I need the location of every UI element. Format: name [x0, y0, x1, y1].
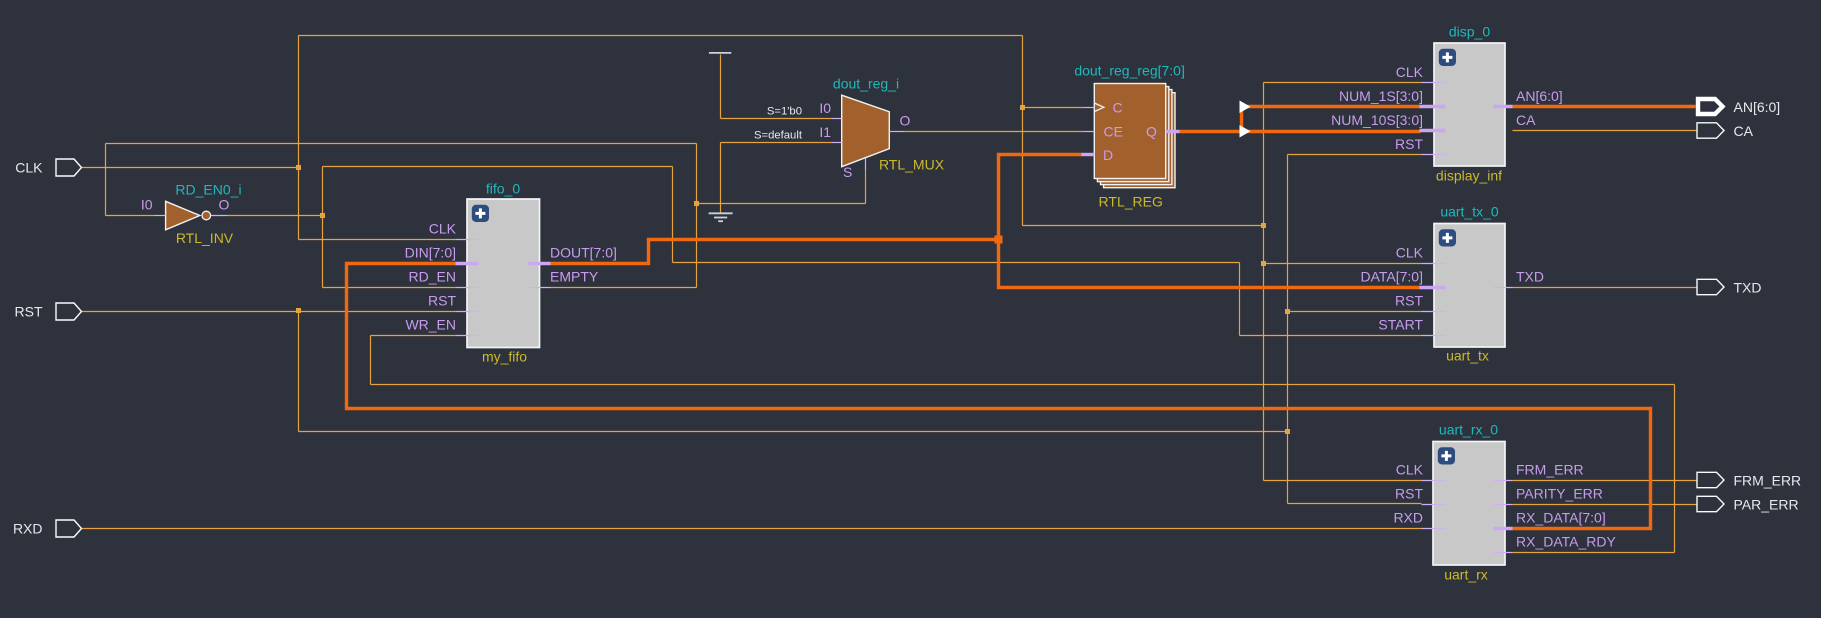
- svg-text:S=1'b0: S=1'b0: [767, 106, 802, 118]
- svg-text:TXD: TXD: [1734, 280, 1762, 296]
- svg-text:NUM_1S[3:0]: NUM_1S[3:0]: [1339, 88, 1423, 104]
- svg-text:RX_DATA[7:0]: RX_DATA[7:0]: [1516, 510, 1606, 526]
- svg-text:AN[6:0]: AN[6:0]: [1734, 99, 1781, 115]
- svg-text:RD_EN: RD_EN: [409, 269, 456, 285]
- svg-text:PAR_ERR: PAR_ERR: [1734, 497, 1799, 513]
- svg-text:RX_DATA_RDY: RX_DATA_RDY: [1516, 534, 1617, 550]
- svg-text:CE: CE: [1104, 124, 1123, 140]
- svg-text:S=default: S=default: [754, 130, 803, 142]
- svg-text:C: C: [1113, 100, 1123, 116]
- svg-text:EMPTY: EMPTY: [550, 269, 599, 285]
- svg-text:CLK: CLK: [15, 160, 43, 176]
- svg-text:uart_tx_0: uart_tx_0: [1440, 204, 1499, 220]
- svg-text:uart_rx: uart_rx: [1444, 567, 1488, 583]
- svg-text:D: D: [1103, 147, 1113, 163]
- svg-text:Q: Q: [1146, 124, 1157, 140]
- svg-text:dout_reg_reg[7:0]: dout_reg_reg[7:0]: [1074, 63, 1185, 79]
- svg-text:RTL_INV: RTL_INV: [176, 230, 234, 246]
- svg-text:CLK: CLK: [429, 221, 457, 237]
- svg-text:RXD: RXD: [13, 521, 43, 537]
- svg-text:WR_EN: WR_EN: [405, 317, 456, 333]
- svg-text:CA: CA: [1734, 123, 1754, 139]
- svg-text:O: O: [900, 113, 911, 129]
- svg-text:TXD: TXD: [1516, 269, 1544, 285]
- svg-text:PARITY_ERR: PARITY_ERR: [1516, 486, 1603, 502]
- svg-text:DATA[7:0]: DATA[7:0]: [1360, 269, 1423, 285]
- svg-text:I0: I0: [819, 100, 831, 116]
- svg-text:RST: RST: [1395, 136, 1423, 152]
- svg-text:dout_reg_i: dout_reg_i: [833, 76, 899, 92]
- svg-text:CA: CA: [1516, 112, 1536, 128]
- svg-text:DIN[7:0]: DIN[7:0]: [405, 245, 456, 261]
- svg-text:CLK: CLK: [1396, 245, 1424, 261]
- svg-text:RST: RST: [1395, 486, 1423, 502]
- svg-text:FRM_ERR: FRM_ERR: [1734, 473, 1802, 489]
- svg-text:AN[6:0]: AN[6:0]: [1516, 88, 1563, 104]
- svg-text:my_fifo: my_fifo: [482, 349, 527, 365]
- svg-text:CLK: CLK: [1396, 64, 1424, 80]
- svg-text:S: S: [843, 164, 852, 180]
- svg-text:RST: RST: [15, 304, 43, 320]
- svg-text:DOUT[7:0]: DOUT[7:0]: [550, 245, 617, 261]
- svg-text:RXD: RXD: [1393, 510, 1423, 526]
- svg-text:NUM_10S[3:0]: NUM_10S[3:0]: [1331, 112, 1423, 128]
- svg-text:RTL_MUX: RTL_MUX: [879, 157, 945, 173]
- svg-text:display_inf: display_inf: [1436, 168, 1502, 184]
- svg-text:O: O: [219, 197, 230, 213]
- svg-text:RST: RST: [1395, 293, 1423, 309]
- svg-text:disp_0: disp_0: [1449, 24, 1490, 40]
- svg-text:uart_rx_0: uart_rx_0: [1439, 422, 1498, 438]
- svg-text:I1: I1: [819, 124, 831, 140]
- svg-text:FRM_ERR: FRM_ERR: [1516, 462, 1584, 478]
- svg-text:CLK: CLK: [1396, 462, 1424, 478]
- svg-text:I0: I0: [141, 197, 153, 213]
- svg-text:RTL_REG: RTL_REG: [1099, 194, 1163, 210]
- svg-text:uart_tx: uart_tx: [1446, 348, 1489, 364]
- svg-text:START: START: [1378, 317, 1423, 333]
- svg-text:RST: RST: [428, 293, 456, 309]
- svg-text:RD_EN0_i: RD_EN0_i: [175, 182, 241, 198]
- svg-text:fifo_0: fifo_0: [486, 181, 520, 197]
